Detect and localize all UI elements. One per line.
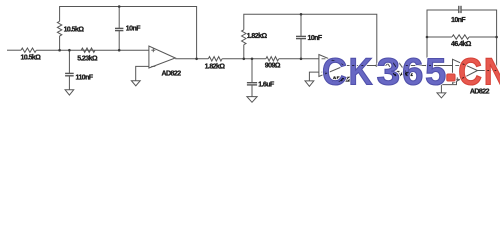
svg-text:10.5kΩ: 10.5kΩ xyxy=(64,27,85,34)
svg-text:46.4kΩ: 46.4kΩ xyxy=(451,41,472,48)
svg-text:10nF: 10nF xyxy=(451,17,466,24)
svg-text:10nF: 10nF xyxy=(308,35,323,42)
svg-text:6: 6 xyxy=(402,52,423,94)
svg-text:AD822: AD822 xyxy=(162,71,182,78)
svg-text:K: K xyxy=(349,52,373,94)
svg-text:1.82kΩ: 1.82kΩ xyxy=(205,63,226,70)
svg-text:C: C xyxy=(322,52,347,94)
svg-text:909Ω: 909Ω xyxy=(265,63,281,70)
svg-text:5: 5 xyxy=(425,52,446,94)
svg-text:10.5kΩ: 10.5kΩ xyxy=(21,54,42,61)
svg-text:5.23kΩ: 5.23kΩ xyxy=(77,55,98,62)
svg-text:1.6uF: 1.6uF xyxy=(258,82,275,89)
svg-text:C: C xyxy=(458,52,481,94)
svg-text:110nF: 110nF xyxy=(76,74,94,81)
svg-text:1.82kΩ: 1.82kΩ xyxy=(247,33,268,40)
svg-text:3: 3 xyxy=(377,52,400,94)
svg-text:10nF: 10nF xyxy=(126,26,141,33)
svg-text:N: N xyxy=(484,52,500,94)
